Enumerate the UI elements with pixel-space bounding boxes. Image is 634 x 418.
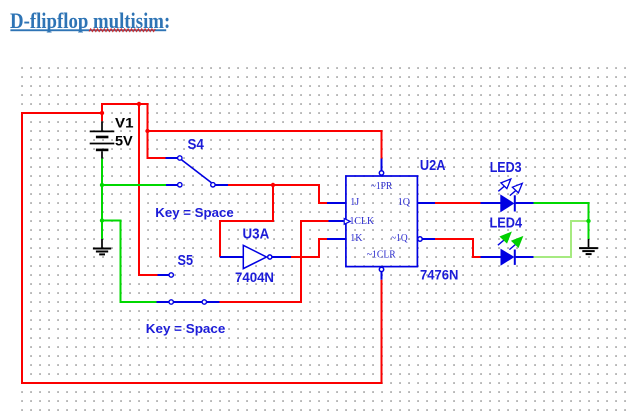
wire: ~1Q to LED4 anode <box>435 239 481 257</box>
node: green battery- / S4 junction <box>100 183 104 187</box>
wire: S4 common to 1J <box>228 185 327 203</box>
switch S5 <box>157 273 220 304</box>
svg-text:S4: S4 <box>188 136 205 153</box>
svg-text:U2A: U2A <box>420 157 446 174</box>
inverter U3A 7404N <box>220 245 291 268</box>
svg-text:V1: V1 <box>115 115 134 131</box>
wire: corner down from top wire to PR row <box>147 103 149 131</box>
svg-text:U3A: U3A <box>243 225 270 242</box>
svg-text:1CLK: 1CLK <box>350 216 375 227</box>
wire: left long net (battery+ to left, down, bottom, up to ~1CLR) <box>22 113 382 383</box>
svg-text:Key = Space: Key = Space <box>146 321 226 336</box>
wire: horizontal to ~1PR pin <box>148 131 382 159</box>
svg-text:7476N: 7476N <box>420 267 458 283</box>
svg-text:Key = Space: Key = Space <box>155 205 233 220</box>
svg-text:LED3: LED3 <box>490 159 522 176</box>
svg-text:1J: 1J <box>350 197 359 208</box>
wire: LED4 cathode to ground net (pale) <box>534 221 589 257</box>
pin 1Q stub <box>417 202 435 204</box>
LED3 diode <box>481 195 534 211</box>
svg-text:1Q: 1Q <box>398 197 411 208</box>
svg-text:1K: 1K <box>350 233 363 244</box>
wire: S4 common branch down to U3A input <box>220 185 273 257</box>
wire: U3A output to 1K <box>291 239 327 257</box>
battery V1 <box>90 121 115 158</box>
wire: 1Q to LED3 anode <box>435 202 481 204</box>
pin 1K stub <box>327 238 346 240</box>
node: top wire / S5 feed junction <box>137 102 141 106</box>
title underline <box>10 29 166 31</box>
pin ~1CLR stub <box>379 267 383 280</box>
switch S4 <box>166 156 229 187</box>
wire: vertical feed to S5 top contact <box>139 104 158 275</box>
pin ~1Q stub with bubble <box>418 237 435 241</box>
ground (left, below battery) <box>93 239 111 254</box>
svg-text:~1Q: ~1Q <box>391 233 408 244</box>
wire: battery top to right corner <box>102 103 148 105</box>
svg-text:7404N: 7404N <box>235 269 274 285</box>
flip-flop U2A 7476N box <box>346 176 418 267</box>
wire: green branch to S5 lower contact <box>102 221 157 303</box>
node: S4 common / U3A input junction <box>271 183 275 187</box>
pin 1CLK stub with clock wedge <box>329 219 351 225</box>
LED3 emission arrows (off, outline) <box>498 179 522 196</box>
node: green battery- / S5 junction <box>100 218 104 222</box>
node: battery+ / left net junction <box>100 111 104 115</box>
pin ~1PR stub <box>379 159 383 176</box>
wire: green branch to S4 lower contact <box>102 184 166 186</box>
wire: battery minus green vertical <box>101 159 103 240</box>
LED4 emission arrows (on, green) <box>498 233 522 250</box>
svg-text:S5: S5 <box>178 252 194 269</box>
wire: S5 common to 1CLK <box>220 221 329 302</box>
LED4 diode <box>481 250 534 265</box>
svg-text:~1PR: ~1PR <box>371 181 393 192</box>
title text <box>10 8 170 34</box>
wire: down to S4 top contact <box>148 131 166 158</box>
ground (right, LEDs) <box>579 239 598 254</box>
spellcheck squiggle <box>89 29 155 32</box>
wire: LED3 cathode to ground net <box>534 203 589 239</box>
node: LED3/LED4 ground junction <box>586 219 590 223</box>
wire: battery plus lead red segment <box>101 103 103 121</box>
svg-text:~1CLR: ~1CLR <box>367 249 396 260</box>
pin 1J stub <box>327 202 346 204</box>
svg-text:LED4: LED4 <box>490 214 523 231</box>
svg-text:5V: 5V <box>115 133 133 149</box>
node: PR row / S4 feed junction <box>145 129 149 133</box>
